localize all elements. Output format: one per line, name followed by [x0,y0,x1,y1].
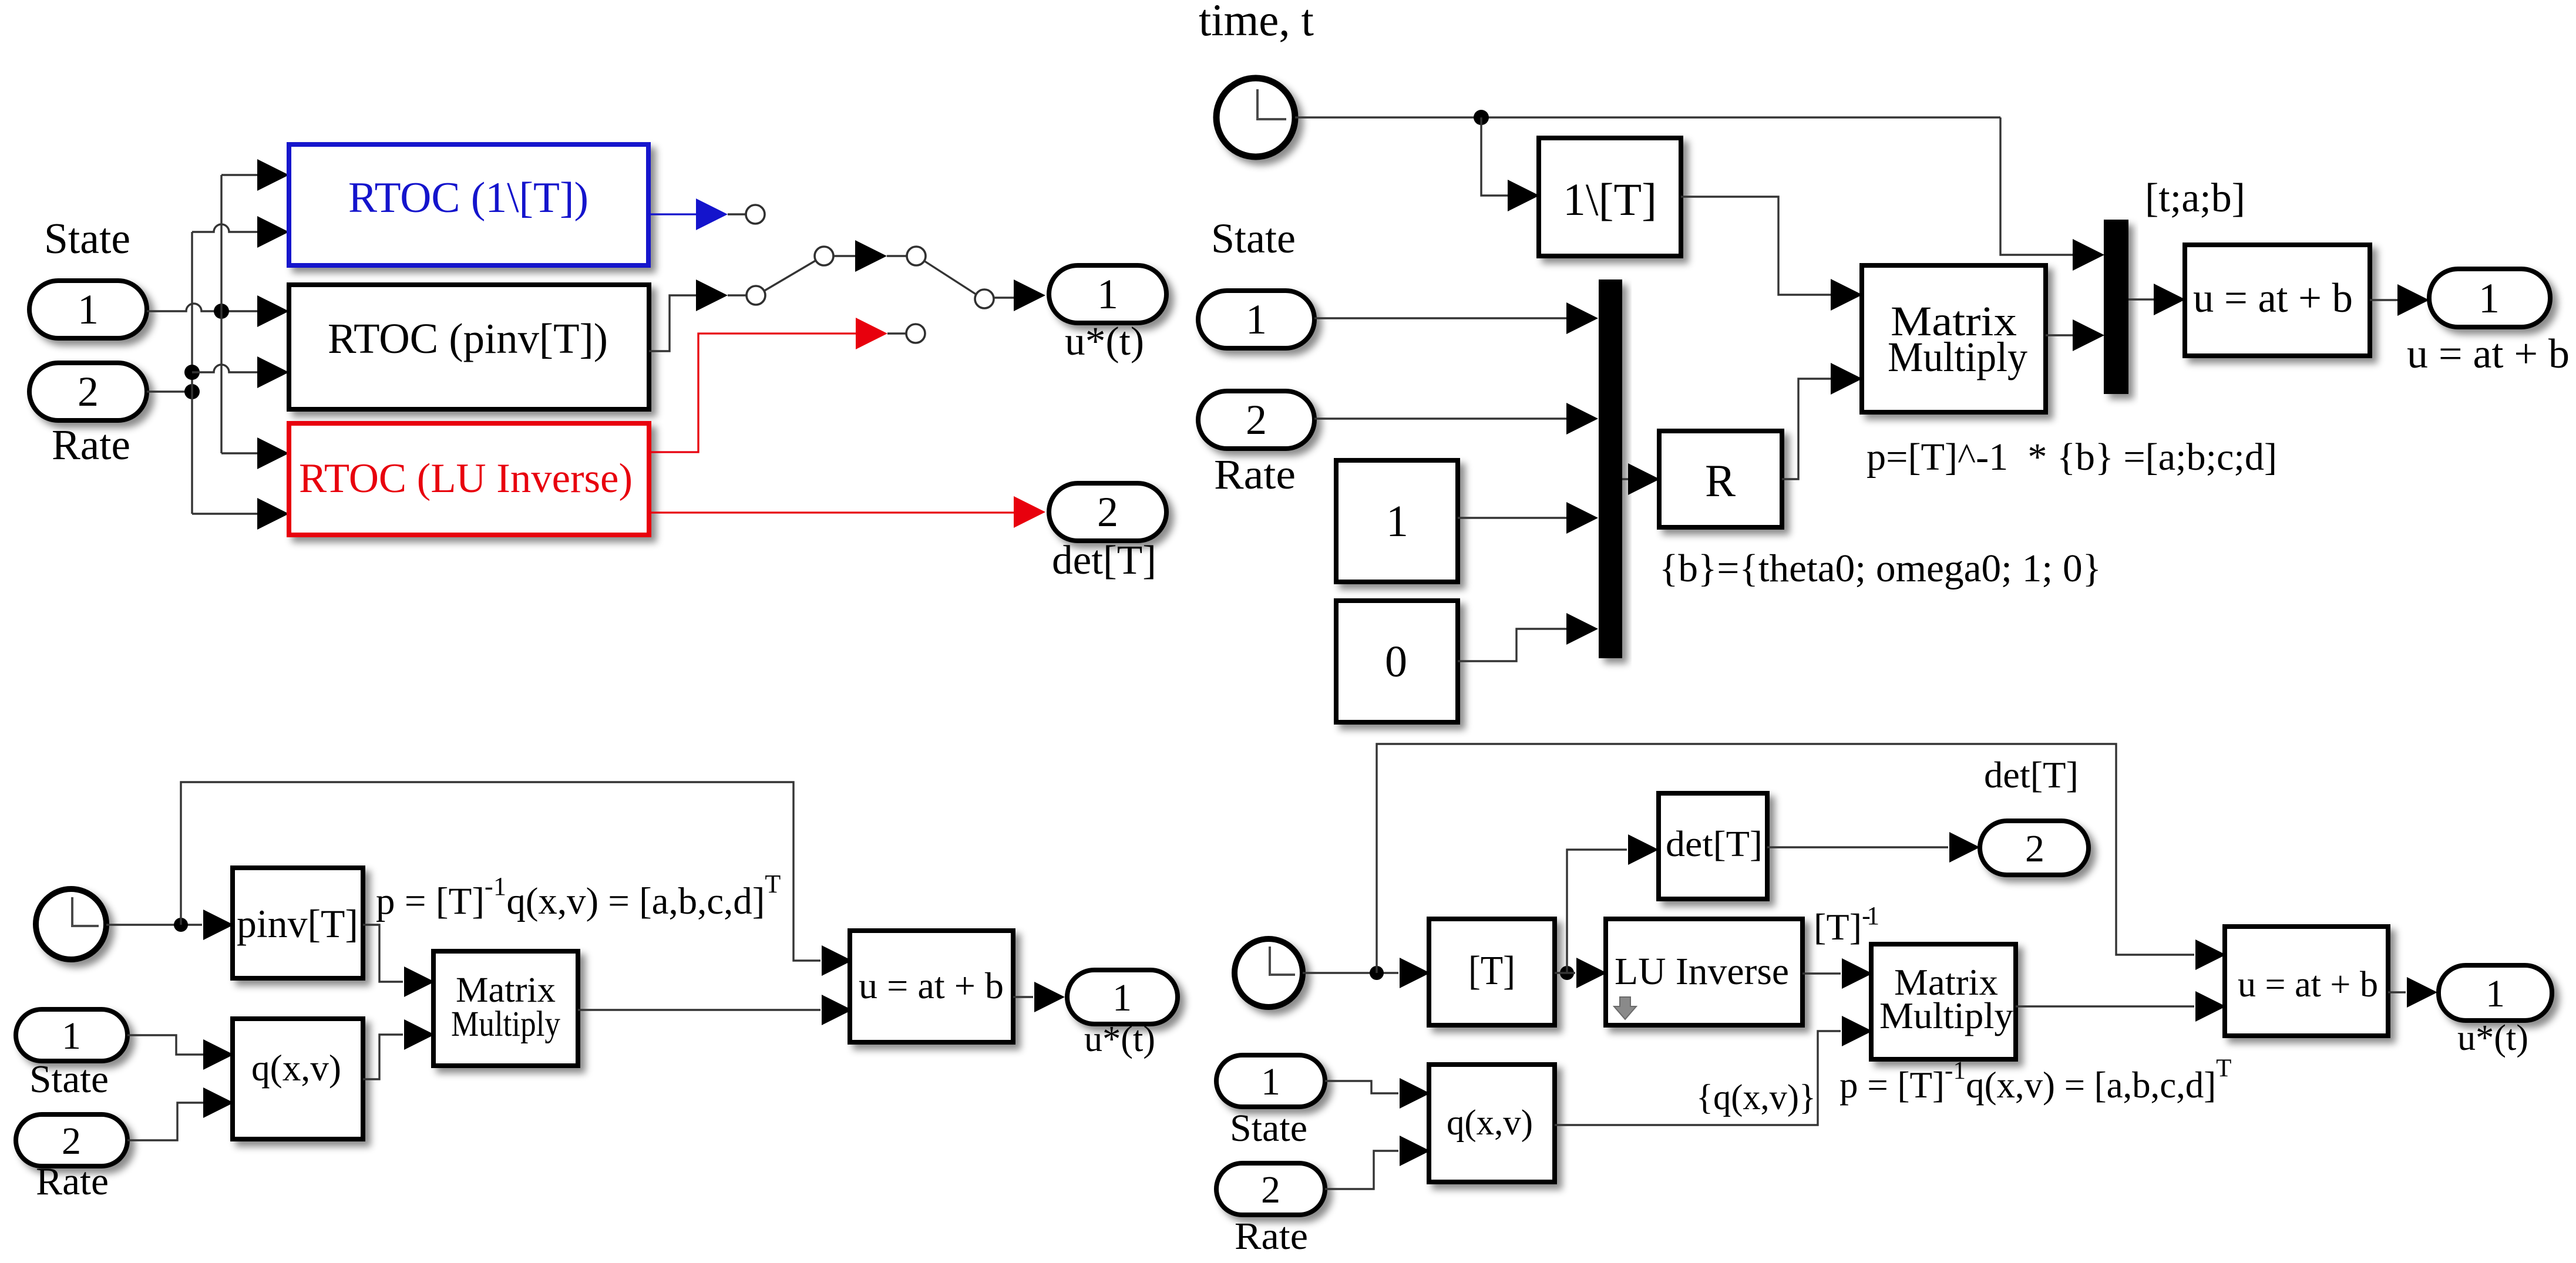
arrowhead into R [1628,463,1660,495]
wire Rate port2 to junction [147,390,192,392]
wire pinv[T] to Matrix Multiply input1 (BL) [363,925,403,982]
outport 1 u*(t) [1049,265,1166,323]
arrowhead mux1 input2 [1566,403,1598,435]
constant block 0 [1336,601,1458,722]
inport 1 State (BR) [1216,1055,1325,1107]
arrowhead into u=at+b input2 (BR) [2195,991,2226,1022]
switch diagonal down [924,261,977,295]
inport 2 Rate (BL) [16,1114,127,1166]
block u = at + b (TR) [2185,245,2370,356]
arrowhead into q(x,v) input2 (BL) [203,1087,234,1118]
svg-text:State: State [1230,1107,1307,1150]
block Matrix Multiply (TR) [1862,265,2046,412]
arrowhead into Matrix Multiply input2 (BL) [404,1019,435,1050]
svg-text:2: 2 [78,368,99,415]
arrowhead into q(x,v) input1 (BL) [203,1039,234,1070]
wire State port1 to black block input1 (hop over x327) [147,304,257,311]
wire Matrix Multiply to mux2 input2 [2046,334,2073,336]
svg-text:Multiply: Multiply [451,1005,560,1044]
clock block [1216,78,1295,157]
wire port2 to mux1 [1314,417,1566,419]
arrowhead into black block input1 [257,295,289,327]
svg-text:[t;a;b]: [t;a;b] [2145,176,2245,221]
wire black block output [649,295,696,351]
inport 1 State (TR) [1198,291,1314,348]
wire red block output1 [649,334,856,452]
wire [T] to LU Inverse [1555,972,1575,974]
svg-text:1: 1 [62,1015,81,1057]
wire mux2 to u=at+b [2128,298,2154,300]
svg-text:RTOC (LU Inverse): RTOC (LU Inverse) [299,456,633,501]
junction dot clock branch (BR) [1370,966,1384,980]
wire red block output2 det [649,511,1014,513]
svg-text:Matrix: Matrix [456,971,556,1010]
svg-text:2: 2 [2025,827,2044,870]
arrowhead into red block input2 [257,498,289,530]
arrowhead black output [696,279,728,311]
svg-text:RTOC (pinv[T]): RTOC (pinv[T]) [328,315,608,362]
svg-text:Rate: Rate [1235,1215,1308,1258]
svg-text:2: 2 [1097,489,1118,535]
arrowhead into Matrix Multiply input1 (BR) [1842,958,1872,989]
wire feedback t to u=at+b input1 (BL) [181,782,820,961]
outport 1 u*(t) (BR) [2439,965,2552,1020]
arrowhead into [T] [1400,958,1430,988]
svg-text:LU Inverse: LU Inverse [1615,950,1789,993]
arrowhead into u=at+b input2 (BL) [822,995,852,1025]
svg-text:R: R [1705,455,1736,506]
stub switch d to out arrow [994,297,1014,298]
switch diagonal up [764,260,816,291]
stub blue dangling [728,213,746,215]
svg-text:State: State [1211,215,1296,262]
arrowhead into q(x,v) input2 (BR) [1400,1136,1430,1166]
block RTOC (pinv[T]) subsystem [289,285,649,409]
arrowhead into outport 2 (BR) [1949,832,1980,863]
inport 1 (State) [29,281,147,338]
svg-text:2: 2 [1261,1168,1280,1211]
svg-text:u = at + b: u = at + b [2407,331,2570,377]
svg-text:det[T]: det[T] [1052,538,1156,583]
arrowhead blue output [696,198,728,230]
arrowhead into Matrix Multiply input2 [1831,363,1862,395]
svg-text:State: State [44,215,130,263]
arrowhead into u=at+b (TR) [2154,284,2185,315]
svg-text:2: 2 [1246,396,1267,443]
inport 2 Rate (TR) [1198,391,1314,449]
svg-text:1: 1 [2479,275,2500,322]
arrowhead into outport (TR) [2397,284,2429,316]
svg-text:q(x,v): q(x,v) [1447,1103,1533,1143]
wire port1 to mux1 [1314,317,1566,319]
svg-text:2: 2 [62,1120,81,1163]
outport 1 u*(t) (BL) [1067,970,1178,1024]
svg-text:1: 1 [1097,271,1118,318]
svg-text:time, t: time, t [1199,0,1314,45]
arrowhead into Matrix Multiply input1 (BL) [404,966,435,997]
wire Matrix Multiply to u=at+b input2 (BL) [578,1009,820,1011]
wire R to Matrix Multiply input2 [1782,379,1831,479]
block u = at + b (BR) [2225,927,2388,1036]
svg-text:0: 0 [1385,637,1407,686]
arrowhead into u=at+b input1 (BL) [822,945,852,976]
svg-text:1: 1 [1246,296,1267,343]
arrowhead into red block input1 [257,437,289,469]
junction dot Rate [184,384,200,399]
open circle switch b [815,247,833,265]
inport 2 (Rate) [29,363,147,420]
clock block (BR) [1235,939,1303,1007]
outport 2 det[T] [1049,483,1166,541]
junction dot after [T] [1560,966,1574,980]
wire q(x,v) to Matrix Multiply input2 (BL) [363,1035,403,1079]
svg-text:1: 1 [1112,976,1132,1019]
svg-text:1\[T]: 1\[T] [1563,174,1657,225]
svg-text:1: 1 [1261,1060,1280,1103]
wire LU Inverse to Matrix Multiply input1 (BR) [1802,972,1841,974]
wire q(x,v) to Matrix Multiply input2 (BR) [1555,1031,1841,1125]
block pinv[T] [233,868,363,978]
wire constant1 to mux1 [1458,517,1566,518]
block Matrix Multiply (BR) [1871,944,2016,1059]
svg-text:q(x,v): q(x,v) [251,1048,341,1089]
arrowhead mux1 input1 [1566,302,1598,334]
arrowhead into Matrix Multiply input2 (BR) [1842,1016,1872,1046]
wire Rate branch to blue block input2 (hop over x377) [192,224,257,232]
svg-text:u*(t): u*(t) [2457,1018,2528,1058]
block q(x,v) (BL) [233,1019,363,1139]
wire Rate branch to black block input2 (hop over x377) [192,365,257,372]
svg-text:1: 1 [2486,972,2505,1015]
svg-text:det[T]: det[T] [1666,824,1763,864]
wire constant0 to mux1 [1458,629,1566,661]
svg-text:{q(x,v)}: {q(x,v)} [1696,1078,1816,1117]
outport 1 (TR) [2429,269,2550,327]
wire clock branch down to 1\[T] [1481,117,1508,196]
svg-text:u = at + b: u = at + b [859,965,1004,1006]
block RTOC (1\[T]) blue subsystem [289,144,648,265]
wire State branch to blue block input1 [221,174,257,176]
arrowhead into det[T] block [1628,834,1659,865]
svg-text:State: State [29,1057,109,1101]
stub red dangling [887,332,906,334]
arrowhead mux1 input3 [1566,502,1598,534]
wire branch up to det[T] [1567,850,1627,973]
inport 2 Rate (BR) [1216,1163,1325,1215]
arrowhead into outport (BR) [2407,977,2437,1008]
svg-text:Multiply: Multiply [1879,995,2014,1036]
arrowhead mux2 input2 [2073,319,2104,351]
stub black dangling [728,294,746,296]
wire blue block output [648,213,696,215]
svg-text:u = at + b: u = at + b [2193,275,2353,321]
block u = at + b (BL) [850,931,1013,1042]
open circle switch c [907,247,926,265]
arrowhead into pinv[T] [203,910,234,940]
svg-text:Multiply: Multiply [1888,334,2027,380]
junction dot clock branch (BL) [174,918,188,932]
arrowhead into blue block input2 [257,216,289,248]
arrowhead into 1\[T] [1508,180,1539,211]
mux1 bar [1599,279,1622,658]
block det[T] [1659,793,1767,899]
wire port2 to q(x,v) input2 (BR) [1325,1151,1398,1189]
stub switch mid [887,255,906,257]
wire Rate branch to red block input2 [192,513,257,514]
wire u=at+b to outport (BL) [1013,996,1033,998]
open circle switch d [975,289,994,308]
block q(x,v) (BR) [1429,1065,1555,1182]
svg-text:Rate: Rate [36,1160,109,1203]
block Matrix Multiply (BL) [433,951,578,1066]
arrowhead switch mid [855,240,887,272]
svg-text:u = at + b: u = at + b [2238,965,2378,1005]
wire mux1 to R [1622,478,1628,480]
svg-text:[T]: [T] [1468,948,1515,993]
outport 2 det[T] (BR) [1980,821,2089,875]
wire u=at+b to outport (TR) [2370,299,2397,301]
svg-text:1: 1 [1386,497,1408,546]
mux2 bar [2104,220,2128,394]
arrowhead into black block input2 [257,356,289,388]
open circle red dangling end [906,324,925,343]
wire det[T] to outport 2 (BR) [1767,846,1948,848]
block 1\[T] [1539,138,1681,256]
arrowhead red into outport det[T] [1014,496,1045,528]
constant block 1 [1336,460,1458,582]
wire State vertical branch x377 [220,175,222,453]
svg-text:u*(t): u*(t) [1065,319,1144,363]
arrowhead into Matrix Multiply input1 [1831,279,1862,311]
wire feedback t to u=at+b input1 (BR) [1377,744,2194,973]
wire port1 to q(x,v) input1 (BR) [1325,1081,1398,1093]
arrowhead into outport (BL) [1034,982,1065,1012]
open circle switch a [746,286,765,305]
svg-text:1: 1 [78,286,99,333]
wire port2 to q(x,v) input2 (BL) [127,1103,203,1140]
arrowhead mux1 input4 [1566,613,1598,645]
inport 1 State (BL) [16,1009,127,1061]
arrowhead into blue block input1 [257,159,289,191]
wire 1\[T] to Matrix Multiply input1 [1681,197,1831,295]
arrowhead into u=at+b input1 (BR) [2195,939,2226,970]
arrowhead into outport u*(t) [1014,279,1045,311]
wire clock to pinv[T] [106,924,202,925]
wire clock to mux2 corner [1295,116,2000,118]
block RTOC (LU Inverse) red subsystem [289,423,649,535]
junction dot State branch [214,304,229,319]
wire clock to [T] [1303,972,1398,974]
stub switch b to arrow [833,255,855,257]
arrowhead into LU Inverse [1576,958,1607,988]
svg-text:RTOC (1\[T]): RTOC (1\[T]) [348,174,588,222]
svg-text:{b}={theta0; omega0; 1; 0}: {b}={theta0; omega0; 1; 0} [1659,547,2101,590]
wire port1 to q(x,v) input1 (BL) [127,1035,203,1055]
wire Rate vertical branch x327 [191,232,193,514]
block [T] [1429,919,1555,1025]
svg-text:pinv[T]: pinv[T] [237,901,358,946]
wire u=at+b to outport (BR) [2388,991,2406,993]
block R [1659,431,1782,527]
arrowhead into q(x,v) input1 (BR) [1400,1078,1430,1109]
svg-text:Rate: Rate [52,421,130,469]
wire State branch to red block input1 [221,452,257,454]
svg-text:p=[T]^-1 * {b} =[a;b;c;d]: p=[T]^-1 * {b} =[a;b;c;d] [1867,436,2277,479]
svg-text:det[T]: det[T] [1984,754,2079,796]
block LU Inverse [1606,919,1802,1025]
svg-text:Rate: Rate [1214,451,1296,498]
svg-text:u*(t): u*(t) [1084,1019,1155,1059]
wire Matrix Multiply to u=at+b input2 (BR) [2016,1005,2194,1007]
junction dot clock branch [1474,110,1489,125]
arrowhead mux2 input1 [2073,239,2104,271]
junction dot Rate to black in2 [184,365,200,380]
clock block (BL) [36,889,106,959]
arrowhead red output1 [856,318,887,349]
open circle blue dangling end [746,205,765,224]
wire clock down to mux2 input1 [2000,117,2073,255]
